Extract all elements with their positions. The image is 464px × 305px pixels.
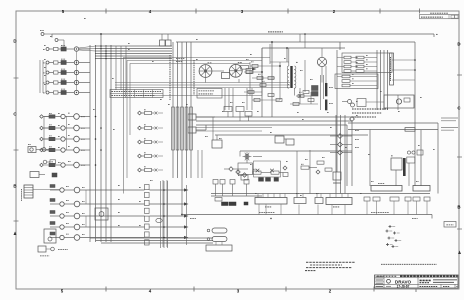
contact pair: [407, 151, 410, 154]
contact label: [43, 72, 45, 74]
junction: [100, 55, 101, 56]
relay K11: [30, 172, 39, 178]
component label: [66, 233, 69, 235]
component label: [352, 73, 354, 75]
wire: [331, 205, 333, 215]
wire: [80, 226, 145, 228]
legend label: [398, 240, 401, 242]
margin note text: [441, 129, 454, 131]
fuse block hatch: [24, 194, 33, 196]
component label: [352, 78, 354, 80]
wire: [296, 194, 298, 198]
title block approvals row: [375, 284, 385, 286]
wiring table text: [112, 91, 162, 93]
breaker handle: [54, 71, 59, 74]
label text: [355, 146, 359, 148]
component label: [299, 91, 302, 93]
wire: [158, 155, 163, 157]
label text: [82, 212, 85, 214]
component label: [144, 109, 146, 111]
label text: [118, 184, 120, 186]
zone tick: [415, 289, 417, 292]
wire: [43, 149, 49, 151]
junction: [110, 53, 111, 54]
wire: [65, 127, 74, 129]
note text: [199, 93, 214, 95]
diode CR21: [229, 167, 233, 171]
wire: [337, 76, 342, 78]
wire: [120, 46, 122, 90]
resistor R34: [317, 161, 324, 164]
wire: [224, 88, 226, 110]
relay coil K9: [49, 148, 55, 151]
wire: [50, 189, 60, 191]
wire: [279, 172, 283, 174]
wire: [158, 112, 163, 114]
contact cross: [155, 155, 158, 158]
junction: [110, 55, 111, 56]
title block col line: [417, 275, 419, 288]
terminal lug: [266, 178, 271, 182]
bus wire: [90, 237, 213, 239]
title block approvals text: [376, 279, 384, 281]
wire: [158, 141, 163, 143]
wire: [44, 33, 52, 35]
terminal strip label: [265, 206, 271, 208]
diode CR-row: [138, 111, 142, 115]
capacitor C21: [224, 107, 232, 112]
wire: [141, 112, 144, 114]
fuse link FL2: [212, 237, 227, 242]
relay K17: [95, 208, 108, 220]
node: [279, 65, 281, 67]
wire: [196, 130, 262, 132]
wiring table column: [152, 90, 154, 98]
wire: [426, 201, 428, 215]
breaker handle: [54, 61, 59, 64]
wire: [205, 125, 207, 130]
junction: [110, 45, 111, 46]
label text: [416, 180, 419, 182]
diode CR41: [350, 117, 355, 122]
label text: [230, 101, 233, 103]
resistor R54: [268, 94, 274, 97]
power bus wire: [176, 41, 415, 43]
logo division text: [420, 279, 432, 281]
label text: [368, 153, 370, 155]
wire: [309, 150, 311, 194]
contactor M2: [348, 100, 352, 104]
title block row line: [375, 277, 459, 279]
amplifier A2: [286, 139, 294, 145]
wire: [152, 112, 155, 114]
indicator lamp DS13: [74, 213, 80, 219]
bus wire: [336, 50, 338, 172]
component label: [329, 86, 333, 88]
wire: [350, 85, 377, 87]
resistor R52: [268, 77, 274, 80]
resistor R51: [257, 77, 263, 80]
fuse F2: [344, 61, 351, 64]
wire: [224, 168, 229, 170]
bus wire: [414, 52, 416, 186]
wire: [257, 194, 259, 198]
wire: [325, 66, 327, 85]
revision entry text: [421, 16, 443, 18]
wire: [96, 45, 173, 47]
wiring table column: [134, 90, 136, 98]
bus wire: [95, 45, 97, 242]
title block approvals text: [376, 282, 384, 284]
label text: [433, 148, 435, 150]
wire: [320, 75, 322, 110]
resistor R-bank: [176, 107, 179, 150]
zone tick: [379, 9, 381, 14]
bus wire: [110, 45, 112, 242]
wiring table column: [125, 90, 127, 98]
wire: [351, 57, 356, 59]
diode CR8A: [40, 137, 44, 141]
terminal block TB1-7: [145, 232, 150, 237]
label text: [284, 57, 286, 59]
wire: [329, 194, 331, 198]
wire: [350, 76, 377, 78]
resistor R53: [260, 84, 266, 87]
bundle designation text: [390, 57, 392, 81]
legend symbol: [386, 243, 389, 246]
wire: [66, 82, 74, 84]
lamp dot: [76, 92, 77, 93]
indicator lamp DS6: [74, 114, 80, 120]
choke L3 core: [325, 100, 327, 111]
contact cross: [155, 127, 158, 130]
junction: [110, 58, 111, 59]
junction: [270, 218, 271, 219]
assembly boundary: [130, 64, 250, 136]
label text: [238, 174, 242, 176]
relay coil K14: [50, 222, 55, 225]
wire: [79, 127, 90, 129]
wire: [238, 79, 240, 83]
wire: [141, 141, 144, 143]
relay coil K10: [49, 163, 55, 166]
contact S9: [30, 148, 33, 151]
aux box: [417, 150, 423, 155]
fuse block hatch: [24, 192, 33, 194]
feeder designation text: [169, 55, 171, 100]
wire: [201, 150, 203, 178]
wire: [231, 72, 234, 74]
wire: [55, 164, 61, 166]
relay coil K13: [50, 211, 55, 214]
contact S10: [42, 148, 46, 152]
wire: [321, 48, 323, 57]
component label: [28, 143, 31, 145]
fuse F7: [342, 84, 350, 87]
wire: [296, 95, 311, 97]
component label: [66, 186, 69, 188]
wire: [310, 92, 312, 104]
wire: [58, 62, 61, 64]
component label: [366, 68, 368, 70]
terminal strip TB2: [255, 198, 287, 205]
wire label: [176, 60, 182, 62]
terminal block TB1-8: [145, 240, 150, 245]
rectifier cross: [319, 59, 325, 65]
component label: [66, 212, 69, 214]
component label: [251, 61, 254, 63]
bus label: [412, 217, 418, 219]
breaker handle: [54, 47, 59, 50]
wire: [96, 48, 173, 50]
wire: [212, 70, 224, 72]
relay coil K4: [61, 81, 66, 85]
revision approval cell: [451, 15, 454, 18]
off-sheet arrow: [184, 214, 189, 217]
contact label: [43, 82, 45, 84]
wire: [258, 205, 260, 215]
label text: [82, 223, 85, 225]
component label: [144, 124, 146, 126]
fan wire: [79, 50, 96, 51]
wire: [141, 155, 144, 157]
bus wire: [369, 130, 371, 187]
component label: [49, 112, 52, 114]
margin vertical text: [21, 189, 23, 201]
indicator lamp DS3: [74, 70, 78, 74]
wire: [284, 138, 286, 140]
wire: [65, 138, 74, 140]
zone tick: [287, 9, 289, 14]
bus wire: [240, 150, 352, 152]
label text: [356, 114, 358, 116]
label text: [355, 129, 359, 131]
component label: [61, 78, 66, 80]
label text: [82, 233, 85, 235]
wire: [80, 203, 145, 205]
breaker CB1: [356, 56, 364, 59]
bus wire: [43, 117, 45, 151]
junction: [100, 50, 101, 51]
off-sheet arrow: [184, 202, 189, 205]
contact CB5: [46, 91, 49, 94]
component label: [253, 168, 256, 170]
inline fuse F7: [405, 128, 415, 132]
wire: [158, 127, 163, 129]
wire: [246, 159, 248, 164]
wire: [85, 216, 87, 227]
indicator lamp DS14: [74, 224, 80, 230]
label text: [150, 179, 153, 181]
diode CR32: [316, 170, 320, 174]
diode CR26: [256, 169, 260, 173]
bus wire: [172, 42, 174, 178]
junction: [105, 58, 107, 60]
wire: [66, 92, 74, 94]
junction: [95, 138, 97, 140]
wire: [50, 226, 60, 228]
component label: [258, 73, 261, 75]
wire: [251, 88, 253, 110]
wire: [252, 99, 280, 101]
label text: [82, 186, 85, 188]
wire: [152, 127, 155, 129]
wire: [46, 149, 49, 151]
wire: [49, 82, 54, 84]
logo division text2: [420, 282, 430, 284]
bus label: [371, 211, 389, 213]
component label: [208, 62, 212, 64]
transistor Q7: [61, 126, 65, 130]
wire: [392, 79, 415, 81]
resistor R20: [241, 66, 249, 70]
junction box: [206, 245, 232, 251]
title block approvals row: [375, 277, 385, 279]
wire: [55, 149, 61, 151]
wire: [196, 127, 272, 129]
component label: [68, 146, 70, 148]
label text: [118, 211, 120, 213]
wire: [96, 50, 173, 52]
bus wire: [420, 130, 422, 186]
contact CB2: [46, 61, 49, 64]
wire: [433, 34, 435, 37]
panel note text: [352, 112, 382, 114]
label text: [93, 108, 95, 110]
wire: [64, 226, 74, 228]
bus label: [190, 217, 196, 219]
wire: [232, 110, 234, 117]
bus wire: [215, 134, 368, 136]
bus wire: [211, 195, 262, 197]
transistor Q8: [61, 137, 65, 141]
breaker handle: [54, 81, 59, 84]
wire: [286, 48, 288, 62]
panel outline: [342, 53, 392, 73]
wire: [279, 194, 281, 198]
label text: [196, 58, 198, 60]
legend label: [389, 230, 392, 232]
diode CR27: [270, 169, 274, 173]
component label: [61, 68, 66, 70]
junction: [105, 55, 107, 57]
bus wire: [115, 82, 290, 84]
junction: [100, 48, 101, 49]
component label: [40, 255, 49, 257]
title block row line: [375, 283, 459, 285]
title block approvals text: [376, 286, 384, 288]
wire: [79, 92, 90, 94]
bus wire: [115, 87, 290, 89]
fuse link FL1: [212, 228, 227, 233]
svg-text:D: D: [457, 42, 460, 47]
junction: [110, 48, 111, 49]
label text: [44, 66, 46, 68]
zone tick: [457, 74, 462, 76]
bus wire: [344, 115, 346, 194]
component label: [61, 45, 66, 47]
wire: [342, 152, 352, 154]
wire: [215, 184, 217, 196]
junction: [100, 45, 101, 46]
label text: [322, 156, 325, 158]
junction: [163, 226, 165, 228]
label text: [128, 48, 130, 50]
title block col line: [383, 275, 385, 288]
junction: [163, 215, 165, 217]
title block header text: [377, 275, 397, 277]
revision block: [420, 15, 460, 19]
contact CB1: [46, 48, 49, 51]
junction: [105, 53, 106, 54]
terminal box: [390, 197, 399, 201]
bus wire: [45, 63, 47, 94]
wire: [244, 91, 262, 93]
bus label: [40, 29, 44, 31]
bus wire: [340, 115, 342, 194]
wiring table: [110, 90, 163, 98]
wire: [246, 184, 248, 196]
wire: [250, 65, 280, 67]
node: [414, 69, 416, 71]
node: [271, 41, 273, 43]
component label: [238, 62, 242, 64]
wire: [239, 112, 241, 122]
terminal strip TB3: [294, 198, 306, 204]
relay coil K11: [50, 185, 55, 188]
lamp dot: [76, 62, 77, 63]
wire: [299, 88, 301, 104]
wire: [408, 163, 410, 186]
wire: [150, 215, 185, 217]
diode CR-row: [138, 140, 142, 144]
wire: [49, 62, 54, 64]
wire: [339, 42, 341, 50]
wire: [227, 112, 229, 118]
bus wire: [346, 125, 348, 186]
contact cross: [155, 141, 158, 144]
contact label: [43, 48, 45, 50]
notes line 1: [306, 261, 355, 263]
terminal box: [405, 197, 411, 201]
wire: [271, 42, 273, 117]
wire: [197, 150, 199, 178]
indicator lamp DS15: [74, 235, 80, 241]
relay coil K12: [50, 199, 55, 202]
component label: [366, 54, 368, 56]
diode CR-row: [138, 154, 142, 158]
terminal block TB1-1: [145, 185, 150, 190]
wire: [299, 34, 301, 42]
wire: [186, 185, 188, 245]
component label: [68, 124, 70, 126]
node: [299, 95, 301, 97]
wire: [49, 92, 54, 94]
node: [100, 33, 102, 35]
wire: [344, 205, 346, 215]
wire: [79, 149, 90, 151]
node: [414, 59, 416, 61]
fan wire: [79, 48, 96, 51]
relay coil K2: [61, 61, 66, 65]
bus wire: [181, 42, 183, 178]
bus wire: [211, 193, 430, 195]
capacitor C-row: [145, 126, 152, 129]
junction: [105, 50, 106, 51]
relay box K22: [246, 69, 253, 74]
bus wire: [335, 115, 337, 194]
wire: [39, 174, 45, 176]
